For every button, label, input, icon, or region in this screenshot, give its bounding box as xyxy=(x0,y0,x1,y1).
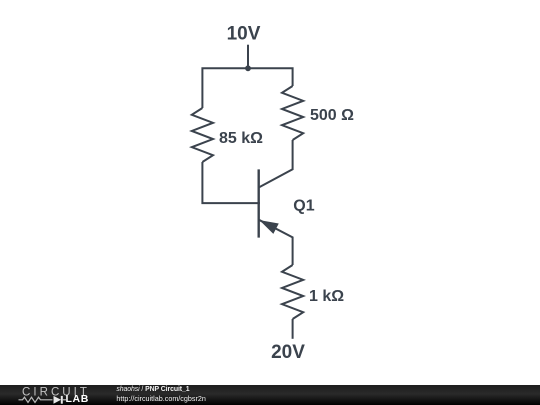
svg-text:shaohsi / PNP Circuit_1: shaohsi / PNP Circuit_1 xyxy=(116,386,189,393)
wire from 10V node down to junction xyxy=(247,45,249,69)
svg-text:20V: 20V xyxy=(271,342,305,363)
footer bar xyxy=(0,385,540,405)
svg-text:1 kΩ: 1 kΩ xyxy=(309,288,344,305)
svg-text:500 Ω: 500 Ω xyxy=(310,107,354,124)
svg-text:Q1: Q1 xyxy=(293,197,314,214)
svg-text:LAB: LAB xyxy=(66,393,89,405)
wire 500 ohm resistor down to collector corner xyxy=(259,140,293,188)
svg-text:10V: 10V xyxy=(227,23,261,44)
transistor Q1 base bar xyxy=(258,169,260,237)
wire 1k resistor to 20V node xyxy=(292,319,294,339)
transistor Q1 emitter arrow (PNP, points into base) xyxy=(261,221,278,233)
resistor 85 kOhm body xyxy=(192,108,213,162)
transistor Q1 emitter diagonal xyxy=(259,220,293,265)
footer logo resistor squiggle xyxy=(19,397,53,402)
junction dot at top rail xyxy=(245,65,251,71)
footer logo diode symbol xyxy=(54,396,62,404)
wire top horizontal rail with left and right drops xyxy=(202,68,292,108)
wire 85k resistor down and base horizontal to Q1 xyxy=(202,162,260,203)
svg-text:85 kΩ: 85 kΩ xyxy=(219,130,263,147)
svg-text:http://circuitlab.com/cgbsr2n: http://circuitlab.com/cgbsr2n xyxy=(116,394,205,403)
resistor 500 Ohm body xyxy=(282,86,303,140)
resistor 1 kOhm body xyxy=(282,265,303,319)
